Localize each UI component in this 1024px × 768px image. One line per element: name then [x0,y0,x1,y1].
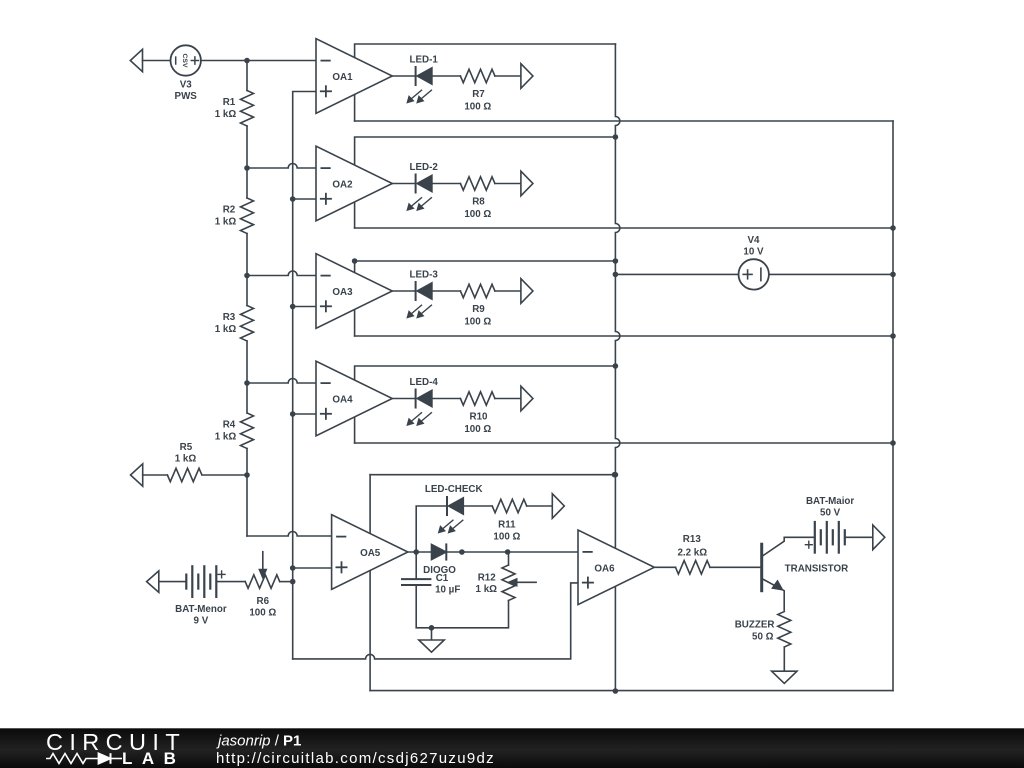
svg-text:100 Ω: 100 Ω [464,316,491,327]
svg-text:10 µF: 10 µF [435,584,460,595]
svg-text:OA6: OA6 [594,564,615,575]
svg-text:http://circuitlab.com/csdj627u: http://circuitlab.com/csdj627uzu9dz [216,750,495,767]
svg-text:R9: R9 [472,304,485,315]
svg-text:1 kΩ: 1 kΩ [215,109,237,120]
svg-text:R1: R1 [223,97,236,108]
svg-text:PWS: PWS [175,91,198,102]
svg-text:jasonrip / P1: jasonrip / P1 [216,733,301,750]
svg-text:1 kΩ: 1 kΩ [215,216,237,227]
svg-text:R2: R2 [223,204,236,215]
svg-text:OA4: OA4 [332,395,353,406]
svg-text:OA2: OA2 [332,180,353,191]
svg-text:LED-2: LED-2 [410,162,439,173]
svg-text:50 V: 50 V [820,508,841,519]
svg-text:R4: R4 [223,419,236,430]
svg-text:R5: R5 [180,442,193,453]
svg-text:LED-CHECK: LED-CHECK [425,484,483,495]
svg-text:OA3: OA3 [332,287,353,298]
svg-text:OA5: OA5 [360,548,381,559]
svg-text:BUZZER: BUZZER [735,619,775,630]
svg-text:R12: R12 [478,572,497,583]
svg-text:CSV: CSV [181,54,188,68]
svg-text:R8: R8 [472,196,485,207]
svg-text:R11: R11 [498,520,516,531]
svg-text:100 Ω: 100 Ω [464,209,491,220]
svg-text:1 kΩ: 1 kΩ [476,584,498,595]
svg-text:R3: R3 [223,312,236,323]
svg-text:100 Ω: 100 Ω [249,608,276,619]
svg-text:LED-3: LED-3 [410,269,439,280]
svg-text:OA1: OA1 [332,72,353,83]
svg-text:R13: R13 [683,534,702,545]
svg-text:R6: R6 [257,596,270,607]
svg-text:100 Ω: 100 Ω [464,424,491,435]
svg-text:BAT-Menor: BAT-Menor [175,604,227,615]
svg-text:V3: V3 [180,80,193,91]
svg-text:1 kΩ: 1 kΩ [175,454,197,465]
svg-text:LED-1: LED-1 [410,54,439,65]
svg-text:TRANSISTOR: TRANSISTOR [785,564,849,575]
svg-text:1 kΩ: 1 kΩ [215,431,237,442]
svg-text:R7: R7 [472,89,485,100]
svg-text:2.2 kΩ: 2.2 kΩ [677,548,707,559]
svg-text:50 Ω: 50 Ω [752,632,774,643]
svg-text:C1: C1 [436,573,449,584]
svg-text:100 Ω: 100 Ω [464,101,491,112]
svg-text:BAT-Maior: BAT-Maior [806,496,854,507]
svg-text:R10: R10 [470,411,489,422]
svg-text:LAB: LAB [122,749,185,768]
svg-text:100 Ω: 100 Ω [493,531,520,542]
svg-text:LED-4: LED-4 [410,377,439,388]
svg-text:1 kΩ: 1 kΩ [215,324,237,335]
svg-text:9 V: 9 V [194,615,209,626]
svg-text:V4: V4 [748,235,761,246]
svg-text:10 V: 10 V [743,247,764,258]
